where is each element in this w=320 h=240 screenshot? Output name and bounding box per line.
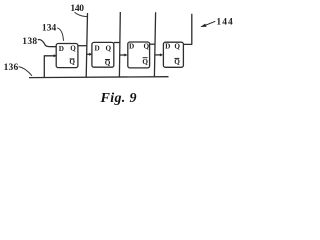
wire: branch into stage 2 D input (87, 53, 90, 55)
pin label Q-bar (stage 3) (142, 58, 148, 66)
wire: bus riser and arrowed input into stage 1 lower-left (44, 56, 54, 78)
svg-text:138: 138 (22, 37, 37, 47)
arrowhead into stage 3 D input (124, 54, 127, 57)
svg-text:Fig. 9: Fig. 9 (100, 91, 137, 106)
arrow from 144 pointing to output line (200, 21, 215, 27)
svg-text:Q: Q (142, 58, 148, 66)
svg-text:140: 140 (70, 4, 84, 14)
flip-flop stage 3 box (128, 42, 150, 68)
bus line 136 (bottom horizontal) (29, 76, 169, 79)
svg-text:Q: Q (70, 45, 76, 53)
flip-flop stage 2 box (92, 42, 114, 67)
wire: Q output of stage 2 to next vertical (114, 42, 120, 44)
svg-text:Q: Q (174, 42, 180, 50)
flip-flop stage 4 box (163, 42, 183, 67)
arrowhead into stage 4 D input (160, 53, 163, 56)
pin label Q-bar (stage 4) (174, 58, 180, 66)
leader line from 134 to stage 1 box (57, 28, 63, 41)
wire: clock line 140 (between stage1 and stage2, down to bus) (86, 13, 87, 77)
wire: Q output of stage 3 to next vertical (150, 43, 156, 45)
svg-text:D: D (95, 45, 100, 53)
leader line from 136 to bus line (19, 67, 32, 76)
arrowhead into stage 1 D input (54, 54, 57, 57)
svg-text:144: 144 (216, 18, 233, 28)
wire: data input line 138 into stage 1 upper-left (38, 40, 57, 47)
wire: clock vertical between stage2 and stage3 (118, 12, 121, 77)
wire: branch into stage 3 D input (120, 54, 125, 56)
svg-text:D: D (129, 43, 134, 51)
wire: Q output of stage 1 to clock line 140 (78, 45, 87, 47)
wire: branch into stage 4 D input (155, 54, 160, 56)
svg-text:Q: Q (106, 45, 112, 53)
flip-flop stage 1 box (134) (56, 44, 78, 68)
svg-text:136: 136 (4, 63, 19, 73)
svg-text:Q: Q (105, 59, 111, 67)
svg-text:Q: Q (144, 42, 150, 50)
arrowhead into stage 2 D input (89, 53, 92, 56)
leader line from 140 to clock line (75, 12, 88, 16)
svg-text:134: 134 (42, 24, 57, 34)
pin label Q-bar (stage 2) (105, 59, 111, 67)
wire: clock vertical between stage3 and stage4 (154, 12, 155, 77)
pin label Q-bar (stage 1) (69, 58, 75, 66)
wire: output line 144 (up from stage 4 top-right) (183, 14, 191, 45)
svg-text:Q: Q (174, 58, 180, 66)
svg-text:D: D (165, 43, 170, 51)
svg-text:D: D (59, 45, 64, 53)
